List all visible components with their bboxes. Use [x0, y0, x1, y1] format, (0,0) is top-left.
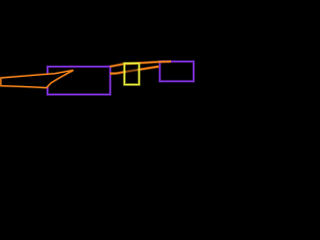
highlighted cell U3 (yellow box, occludes airwires) glow — [124, 63, 139, 84]
cell box U2 — [160, 62, 194, 82]
cell box U1 glow — [48, 67, 111, 95]
airwire B (net U1 right edge to U2 left edge) glow — [110, 67, 159, 74]
airwire A (net U1 top-right to U2 top-left) glow — [110, 62, 171, 67]
wire polygon W1 (tapered arrow-shaped net, black filled) glow — [1, 70, 73, 87]
cell box U1 — [48, 67, 111, 95]
wire polygon W1 core — [1, 70, 73, 87]
airwire B core — [110, 67, 159, 74]
highlighted cell U3 core — [124, 63, 139, 84]
cell box U2 glow — [160, 62, 194, 82]
airwire A core — [110, 62, 171, 67]
